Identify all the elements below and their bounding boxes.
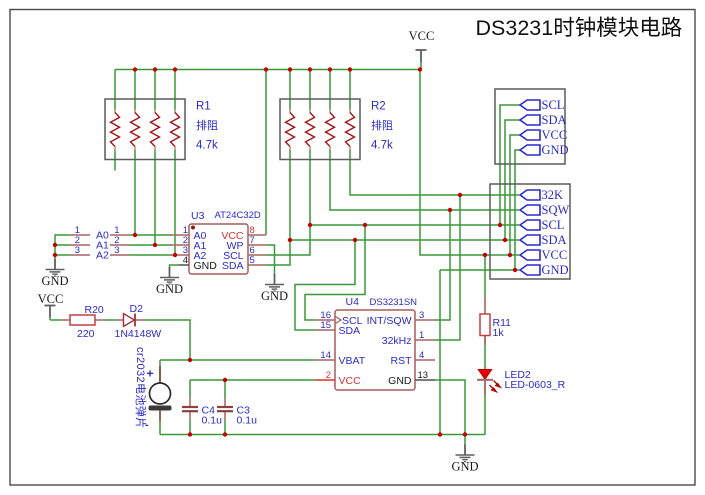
svg-text:排阻: 排阻 (196, 118, 218, 132)
junction rail-A1 (53, 243, 57, 247)
svg-text:R2: R2 (371, 101, 386, 113)
wire A2 row (129, 254, 171, 256)
junction SCL-conn (498, 223, 502, 227)
junction bus-VCC (418, 67, 422, 71)
junction SDA-R2c1 (288, 238, 292, 242)
svg-text:AT24C32D: AT24C32D (215, 210, 261, 221)
wire U4 32kHz to 32K line (435, 195, 460, 340)
svg-text:VCC: VCC (542, 128, 568, 142)
diode D2 1N4148W (116, 314, 145, 327)
svg-text:3: 3 (419, 310, 424, 321)
wire bottom ground bus (160, 434, 485, 436)
wire conn1 GND down (515, 150, 520, 270)
resistor R20 (61, 315, 104, 325)
svg-text:1k: 1k (493, 327, 505, 339)
label C3 (237, 405, 251, 417)
wire U3 VCC pin8 to bus (265, 70, 267, 236)
port SDA (J1-2) (520, 113, 567, 127)
svg-text:GND: GND (542, 263, 569, 277)
junction SDA-conn (503, 238, 507, 242)
svg-text:GND: GND (542, 143, 569, 157)
resistor R2 element 4 (346, 109, 355, 150)
svg-text:13: 13 (418, 370, 429, 381)
net label A1 (96, 240, 109, 252)
IC U3 AT24C32D body (189, 224, 248, 274)
label C4 value 0.1u (202, 415, 223, 427)
svg-text:GND: GND (261, 289, 288, 303)
svg-text:D2: D2 (130, 303, 144, 315)
svg-text:VCC: VCC (409, 29, 435, 43)
junction bus-R1c3 (153, 67, 157, 71)
U3 pin 6 SCL (223, 245, 266, 262)
wire R1 col1 top (114, 70, 116, 110)
wire R1 col3 to A1 row (154, 150, 156, 245)
U4 pin 16 SCL (315, 310, 363, 327)
wire VBAT line (160, 359, 315, 361)
junction SDA-U4 (353, 238, 357, 242)
wire U3 GND pin4 to ground (170, 265, 180, 268)
wire R20 to D2 (104, 319, 116, 321)
svg-text:1N4148W: 1N4148W (115, 328, 162, 340)
junction A2 row (173, 253, 177, 257)
svg-text:GND: GND (388, 375, 412, 387)
svg-text:SCL: SCL (542, 218, 565, 232)
svg-text:220: 220 (77, 328, 95, 340)
wire R1 col3 top (154, 70, 156, 110)
wire R2 col1 top (289, 70, 291, 110)
wire C3 top lead (224, 380, 226, 398)
wire R11 to LED (484, 335, 486, 367)
wire R2 col4 top (349, 70, 351, 110)
svg-text:SCL: SCL (542, 98, 565, 112)
svg-text:GND: GND (194, 260, 218, 272)
header JP1 left pins (70, 225, 90, 256)
U3 pin 1 A0 (170, 225, 207, 242)
wire header left rail (55, 235, 70, 256)
resistor R1 element 4 (171, 109, 180, 150)
label 1N4148W (115, 328, 162, 340)
svg-text:R20: R20 (85, 304, 104, 316)
svg-text:SDA: SDA (222, 260, 244, 272)
svg-text:cr2032电池弹片: cr2032电池弹片 (134, 347, 148, 429)
svg-text:DS3231时钟模块电路: DS3231时钟模块电路 (476, 16, 683, 40)
wire battery minus lead (159, 421, 161, 435)
svg-text:DS3231SN: DS3231SN (370, 297, 418, 308)
junction VCC-R11 (483, 253, 487, 257)
wire U4 INT/SQW to SQW line (435, 210, 450, 320)
resistor R11 (480, 297, 490, 345)
U4 pin 1 32kHz (382, 330, 435, 347)
wire VCC to R11 top (484, 255, 486, 298)
junction VCC-C3 (223, 378, 227, 382)
wire C3 bottom lead (224, 420, 226, 435)
wire U4 GND pin13 to bus (435, 380, 465, 435)
label cr2032电池弹片 (rotated) (134, 347, 148, 429)
wire R2 col2 to U3 SCL pin (266, 150, 310, 255)
connector box J2 outline (490, 184, 570, 279)
junction A0 row (133, 233, 137, 237)
wire VCC line to U4 pin2 (190, 379, 315, 381)
port VCC (J1-3) (520, 128, 567, 142)
svg-text:GND: GND (451, 460, 478, 474)
junction bus-R2c3 (328, 67, 332, 71)
junction bus-R2c2 (308, 67, 312, 71)
label AT24C32D (215, 210, 261, 221)
resistor R1 element 3 (151, 109, 160, 150)
svg-text:GND: GND (41, 274, 68, 288)
wire R2 col3 top (329, 70, 331, 110)
wire battery plus lead (159, 360, 161, 366)
wire A0 row (129, 234, 171, 236)
svg-text:5: 5 (250, 255, 255, 266)
wire rail to row A2 (55, 254, 70, 256)
U4 pin 15 SDA (315, 320, 360, 337)
label 220 (77, 328, 95, 340)
svg-text:VCC: VCC (339, 375, 362, 387)
resistor R2 element 1 (286, 109, 295, 150)
svg-text:+: + (147, 367, 154, 381)
svg-text:SQW: SQW (542, 203, 570, 217)
port GND (J1-4) (520, 143, 569, 157)
svg-text:VCC: VCC (38, 292, 64, 306)
resistor network R1 box (105, 99, 185, 160)
svg-text:INT/SQW: INT/SQW (367, 315, 412, 327)
wire top VCC bus (115, 69, 420, 71)
junction bus-C4 (188, 432, 192, 436)
svg-text:SDA: SDA (542, 233, 567, 247)
svg-text:VCC: VCC (542, 248, 568, 262)
svg-text:4: 4 (183, 255, 188, 266)
wire GND line to port (440, 269, 519, 271)
wire R2 col3 to SQW line (330, 150, 519, 210)
label R1 value (196, 101, 218, 152)
label R20 (85, 304, 104, 316)
junction 32K-U4 (458, 193, 462, 197)
U4 pin 2 VCC (315, 370, 361, 387)
svg-text:RST: RST (391, 355, 413, 367)
svg-text:1: 1 (419, 330, 424, 341)
junction SCL-U4 (363, 223, 367, 227)
U3 pin 2 A1 (170, 235, 207, 252)
junction bus-GND (463, 432, 467, 436)
junction bus-R2c1 (288, 67, 292, 71)
IC U4 DS3231SN body (335, 310, 415, 390)
net label A2 (96, 250, 109, 262)
svg-text:排阻: 排阻 (371, 118, 393, 132)
battery BT1 CR2032 (149, 366, 172, 421)
svg-text:4: 4 (419, 350, 424, 361)
wire R1 col4 to A2 row (174, 150, 176, 255)
junction bus-U3vcc (264, 67, 268, 71)
port SDA (J2-4) (520, 233, 567, 247)
svg-text:2: 2 (326, 370, 331, 381)
label 1k (493, 327, 505, 339)
wire conn1 SDA down (505, 120, 520, 240)
svg-text:VBAT: VBAT (339, 355, 366, 367)
svg-text:14: 14 (320, 350, 331, 361)
wire conn1 VCC down (510, 135, 520, 255)
wire SDA to U4 pin15 (295, 240, 355, 330)
port 32K (J2-1) (520, 188, 563, 202)
wire C4 top lead (189, 380, 191, 398)
ground U3 pin4 GND (156, 267, 183, 296)
wire R1 col4 top (174, 70, 176, 110)
U4 pin 13 GND (388, 370, 435, 387)
label D2 (130, 303, 144, 315)
label R2 value (371, 101, 393, 152)
label LED2 (505, 369, 531, 381)
port GND (J2-6) (520, 263, 569, 277)
junction bus-gnddrop (438, 432, 442, 436)
svg-text:U3: U3 (191, 210, 205, 222)
svg-text:R1: R1 (196, 101, 211, 113)
title DS3231时钟模块电路 (476, 16, 683, 40)
junction bus-R2c4 (348, 67, 352, 71)
ground header GND (41, 255, 68, 288)
U3 pin 8 VCC (221, 225, 266, 242)
junction rail-A2 (53, 253, 57, 257)
wire A1 row (129, 244, 171, 246)
U3 pin 7 WP (227, 235, 266, 252)
LED LED2 (477, 367, 500, 395)
battery plus mark (147, 367, 154, 381)
port VCC (J2-5) (520, 248, 567, 262)
resistor R2 element 2 (306, 109, 315, 150)
wire SCL line (310, 224, 519, 226)
wire SDA line (290, 239, 519, 241)
svg-text:U4: U4 (346, 296, 360, 308)
svg-text:LED-0603_R: LED-0603_R (505, 379, 566, 391)
junction VBAT-D2 (188, 358, 192, 362)
wire VCC drop to VCC rail (420, 70, 519, 256)
power VCC top (409, 29, 435, 70)
net label A0 (96, 230, 109, 242)
svg-text:GND: GND (156, 282, 183, 296)
U3 pin 5 SDA (222, 255, 266, 272)
wire GND vertical drop (439, 270, 441, 435)
port SCL (J2-3) (520, 218, 564, 232)
U3 pin 4 GND (179, 255, 217, 272)
resistor R2 element 3 (326, 109, 335, 150)
junction GND-conn (513, 268, 517, 272)
junction bus-C3 (223, 432, 227, 436)
wire R2 col1 to U3 SDA pin (266, 150, 290, 265)
wire LED to bus (484, 395, 486, 435)
svg-text:A2: A2 (96, 250, 109, 262)
U4 pin 14 VBAT (315, 350, 366, 367)
svg-text:4.7k: 4.7k (196, 140, 218, 152)
header JP2 right pins (110, 225, 129, 256)
label C3 value 0.1u (237, 415, 258, 427)
wire C4 bottom lead (189, 420, 191, 435)
port SCL (J1-1) (520, 98, 564, 112)
junction A1 row (153, 243, 157, 247)
svg-text:3: 3 (75, 245, 80, 256)
battery minus mark (145, 419, 149, 431)
label U4 (346, 296, 360, 308)
svg-text:SDA: SDA (542, 113, 567, 127)
svg-text:0.1u: 0.1u (237, 415, 258, 427)
capacitor C3 0.1u (217, 398, 233, 420)
svg-text:32K: 32K (542, 188, 564, 202)
wire U3 WP pin7 to ground (266, 245, 275, 276)
wire VCC to R20 (50, 319, 61, 321)
svg-text:SDA: SDA (339, 325, 361, 337)
label LED-0603_R (505, 379, 566, 391)
wire R1 col1 bottom stub (114, 150, 116, 171)
resistor network R2 box (280, 99, 360, 160)
label U3 (191, 210, 205, 222)
svg-text:4.7k: 4.7k (371, 140, 393, 152)
ground bottom GND (451, 435, 478, 474)
label R11 (493, 317, 512, 329)
label C4 (202, 405, 216, 417)
junction SQW-U4 (448, 208, 452, 212)
connector box J1 outline (495, 89, 565, 164)
wire rail to row A1 (55, 244, 70, 246)
resistor R1 element 2 (131, 109, 140, 150)
power VCC left (38, 292, 64, 320)
U3 pin 3 A2 (170, 245, 207, 262)
capacitor C4 0.1u (182, 398, 198, 420)
label DS3231SN (370, 297, 418, 308)
wire R2 col4 to 32K line (350, 150, 519, 195)
ground U3 WP GND (261, 274, 288, 303)
svg-text:32kHz: 32kHz (382, 335, 412, 347)
junction bus-R1c4 (173, 67, 177, 71)
resistor R1 element 1 (111, 109, 120, 150)
junction VCC-conn (508, 253, 512, 257)
junction bus-R1c2 (133, 67, 137, 71)
svg-text:3: 3 (114, 245, 119, 256)
wire R1 col2 to A0 row (134, 150, 136, 235)
svg-text:15: 15 (320, 320, 331, 331)
wire SCL to U4 pin16 (305, 225, 365, 320)
svg-text:0.1u: 0.1u (202, 415, 223, 427)
wire conn1 SCL down (500, 105, 520, 225)
U4 pin 4 RST (391, 350, 436, 367)
wire D2 to VBAT node (145, 320, 191, 360)
U4 pin 3 INT/SQW (367, 310, 435, 327)
port SQW (J2-2) (520, 203, 569, 217)
wire R1 col2 top (134, 70, 136, 110)
wire R2 col2 top (309, 70, 311, 110)
junction SCL-R2c2 (308, 223, 312, 227)
